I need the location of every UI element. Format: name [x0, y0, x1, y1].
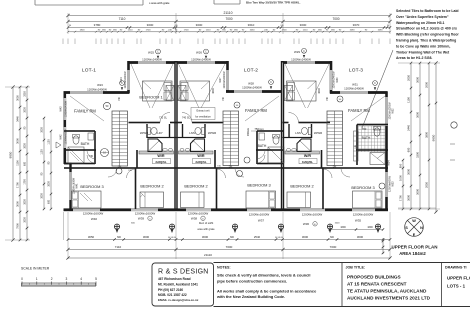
dimension row: overall 21110: [68, 15, 390, 17]
svg-text:W41: W41: [76, 183, 79, 189]
ref circle LOT-1 stair: [116, 168, 122, 174]
LOT-1 family diagonal: [70, 96, 104, 121]
LOT-2 wardrobe at party wall: [178, 85, 186, 100]
svg-text:C: C: [270, 81, 272, 84]
left outer wall upper: [64, 92, 67, 164]
svg-text:1200Wx1600W: 1200Wx1600W: [302, 213, 323, 217]
top wall bedrooms LOT-1/LOT-2: [128, 61, 229, 64]
window W24: [127, 70, 131, 90]
svg-text:2050: 2050: [425, 182, 429, 188]
small balloon left wall: [56, 142, 61, 148]
svg-text:DRAWING TI: DRAWING TI: [445, 266, 467, 270]
window W33: [385, 172, 389, 197]
ref circle LOT-2 family: [244, 157, 250, 163]
svg-text:3000: 3000: [24, 107, 27, 113]
svg-text:NOTES:: NOTES:: [217, 266, 231, 270]
svg-text:710 SL: 710 SL: [159, 117, 168, 120]
svg-text:7110: 7110: [119, 17, 126, 21]
LOT-1 W/R sliding front (gray band): [139, 151, 174, 154]
svg-text:framing plan). Tiles & Waterpr: framing plan). Tiles & Waterproofing: [396, 39, 456, 43]
svg-text:BEDROOM 3: BEDROOM 3: [351, 185, 374, 190]
svg-text:PH (09) 627 2160: PH (09) 627 2160: [158, 288, 183, 292]
svg-text:area with grate: area with grate: [197, 227, 215, 231]
svg-text:MOB. 021 1587 422: MOB. 021 1587 422: [158, 293, 187, 297]
window W32: [385, 97, 389, 126]
LOT-1 bath vanity: [88, 133, 94, 140]
svg-text:7000: 7000: [330, 245, 337, 249]
svg-text:W42: W42: [60, 134, 63, 140]
svg-text:1630: 1630: [250, 30, 256, 32]
svg-text:1200Wx1600W: 1200Wx1600W: [249, 213, 270, 217]
svg-text:Bbo Two Way 30/30/30 TRK TPR H: Bbo Two Way 30/30/30 TRK TPR HOWL.: [246, 1, 301, 5]
bottom dimension row B: 7110/7000/7000: [68, 249, 390, 251]
top wall bedroom LOT-3: [282, 61, 332, 64]
svg-text:1200Wx2400W: 1200Wx2400W: [242, 86, 262, 90]
svg-text:C: C: [205, 51, 207, 54]
svg-text:600: 600: [48, 199, 51, 204]
svg-text:W43: W43: [60, 106, 63, 112]
svg-text:1100: 1100: [16, 160, 20, 166]
svg-text:1100: 1100: [48, 139, 51, 145]
LOT-3 bath walls (tiled): [357, 124, 388, 126]
svg-text:2050: 2050: [24, 91, 27, 97]
title block frame: [152, 263, 214, 306]
svg-text:3800: 3800: [318, 88, 321, 94]
svg-text:R & S DESIGN: R & S DESIGN: [158, 269, 209, 276]
svg-text:C: C: [374, 82, 376, 85]
window W36: [300, 208, 325, 212]
svg-text:W/R: W/R: [157, 154, 165, 158]
svg-text:3: 3: [66, 277, 68, 281]
LOT-3 stair: [327, 111, 343, 166]
svg-text:1200Wx2400W: 1200Wx2400W: [87, 87, 107, 91]
ref circle LOT-1 hall: [101, 149, 109, 157]
bottom extension lines: [67, 212, 69, 259]
svg-text:N: N: [420, 226, 423, 230]
svg-text:3000: 3000: [41, 193, 44, 199]
svg-text:3670: 3670: [353, 23, 360, 27]
svg-text:AT 15 RENATA CRESCENT: AT 15 RENATA CRESCENT: [347, 281, 407, 286]
svg-text:1100: 1100: [407, 97, 411, 103]
svg-text:1790: 1790: [399, 195, 403, 201]
svg-text:7900: 7900: [16, 223, 20, 229]
svg-text:Site check & verify all diment: Site check & verify all dimentions, leve…: [217, 273, 310, 278]
bottom dimension row A: [68, 239, 390, 241]
svg-text:21110: 21110: [204, 253, 212, 257]
svg-text:C: C: [303, 50, 305, 53]
svg-text:3000: 3000: [407, 169, 411, 175]
svg-text:Waterproofing on 20mm H3.1: Waterproofing on 20mm H3.1: [396, 21, 445, 25]
LOT-2 stair: [223, 111, 239, 166]
svg-text:3x6Q/SL: 3x6Q/SL: [155, 160, 166, 164]
svg-text:W29: W29: [294, 50, 300, 54]
LOT-3 bedroom1 bed: [287, 81, 317, 101]
left outer wall lower: [69, 164, 71, 211]
ref circle LOT-3: [379, 183, 385, 189]
svg-text:LNS: LNS: [295, 131, 301, 135]
window W28: [234, 90, 262, 94]
LOT-1 laundry fixtures: [147, 127, 150, 134]
LOT-2 shower: [191, 139, 205, 152]
svg-text:1: 1: [36, 277, 38, 281]
svg-text:3000: 3000: [147, 23, 154, 27]
window W30: [329, 70, 333, 90]
svg-text:2440: 2440: [407, 125, 411, 131]
svg-text:W30: W30: [336, 77, 339, 83]
svg-text:90 240 90: 90 240 90: [275, 237, 283, 239]
LOT-2 bedroom east wall: [226, 61, 229, 93]
svg-text:Areas to be H1.2 SG8.: Areas to be H1.2 SG8.: [396, 56, 432, 60]
svg-text:TE ATATU PENINSULA, AUCKLAND: TE ATATU PENINSULA, AUCKLAND: [347, 288, 427, 293]
svg-text:Selected Tiles to Bathroom to: Selected Tiles to Bathroom to be Laid: [396, 9, 459, 13]
LOT-1 bedroom2 bed: [140, 192, 164, 208]
svg-text:90 240 90: 90 240 90: [168, 237, 176, 239]
LOT-3 bath tile grid: [358, 126, 386, 152]
party wall LOT-2/LOT-3: [281, 61, 284, 211]
cut-off box bottom (sheet above): [35, 4, 143, 6]
svg-text:3000: 3000: [416, 189, 420, 195]
svg-text:3000: 3000: [24, 199, 27, 205]
svg-text:3000: 3000: [357, 235, 364, 239]
svg-text:3000: 3000: [143, 235, 150, 239]
svg-text:W/R: W/R: [197, 154, 205, 158]
svg-text:600: 600: [399, 163, 403, 168]
svg-text:W27: W27: [219, 77, 222, 83]
svg-text:W: W: [412, 219, 416, 223]
svg-text:W/WR: W/WR: [314, 131, 322, 135]
window tag W26: [204, 49, 209, 59]
LOT-2 bedroom3 bed: [246, 191, 276, 208]
svg-text:7000: 7000: [226, 245, 233, 249]
svg-text:BEDROOM 2: BEDROOM 2: [184, 184, 207, 189]
svg-text:1700: 1700: [282, 30, 288, 32]
svg-text:LDY: LDY: [157, 131, 163, 135]
svg-text:BEDROOM 3: BEDROOM 3: [247, 183, 270, 188]
window W25: [138, 61, 166, 65]
window W42: [63, 127, 67, 148]
cut-off box 2 bottom: [214, 3, 240, 5]
svg-text:1790: 1790: [16, 182, 20, 188]
svg-text:W24: W24: [120, 77, 123, 83]
left dimension chain 2: [19, 87, 21, 240]
LOT-1 bedroom2/3 divider: [135, 168, 137, 209]
svg-text:AUCKLAND INVESTMENTS 2021 LTD: AUCKLAND INVESTMENTS 2021 LTD: [347, 295, 431, 300]
LOT-3 bedroom2 bed: [287, 192, 311, 208]
window tag W31: [373, 81, 378, 91]
svg-text:2050: 2050: [407, 75, 411, 81]
svg-text:3800: 3800: [425, 132, 429, 138]
svg-text:W33: W33: [392, 181, 395, 187]
svg-text:BEDROOM 2: BEDROOM 2: [140, 184, 163, 189]
svg-text:21110: 21110: [224, 11, 233, 15]
window W26: [187, 61, 215, 65]
LOT-3 W/R sliding front (gray band): [285, 151, 320, 154]
svg-text:0: 0: [21, 277, 23, 281]
svg-text:1200Wx2400W: 1200Wx2400W: [223, 71, 226, 89]
svg-text:BEDROOM 3: BEDROOM 3: [80, 184, 103, 189]
LOT-2 roof V lines: [179, 64, 200, 108]
svg-text:2000: 2000: [425, 82, 429, 88]
svg-text:S: S: [405, 226, 408, 230]
svg-text:3000: 3000: [300, 23, 307, 27]
LOT-3 shower 2: [297, 139, 311, 152]
extension stubs below top dim row 4: [62, 39, 64, 45]
svg-text:1200Wx1600W: 1200Wx1600W: [135, 211, 156, 215]
svg-text:BATH: BATH: [81, 142, 90, 146]
LOT-2 bath vanity: [259, 133, 265, 140]
window W37: [247, 208, 271, 212]
LOT-2 bedroom2 bed: [181, 192, 205, 208]
extension lines top: [67, 13, 69, 34]
dimension row: small top dims: [68, 31, 390, 33]
svg-text:467 Richardson Road: 467 Richardson Road: [158, 277, 191, 281]
window W38: [186, 208, 211, 212]
svg-text:5: 5: [95, 277, 97, 281]
svg-text:3300: 3300: [416, 152, 420, 158]
svg-text:FAMILY RM: FAMILY RM: [348, 108, 370, 113]
LOT-2 door arcs: [217, 169, 226, 178]
LOT-1 bath fixtures: toilet, basin, shower: [73, 136, 79, 144]
right dimension chains: [402, 160, 404, 209]
LOT-3 bedroom east wall: [330, 61, 333, 94]
svg-text:W/WR: W/WR: [208, 131, 216, 135]
bottom outer wall: [64, 208, 389, 211]
window W43: [63, 98, 67, 120]
LOT-2 W/R sliding front (gray band): [179, 151, 214, 154]
svg-text:for ventilation: for ventilation: [195, 115, 211, 119]
leader line from note to LOT-3 bath: [362, 50, 393, 128]
svg-text:W40: W40: [91, 217, 98, 221]
svg-text:W38: W38: [191, 217, 198, 221]
svg-text:DN: DN: [333, 166, 337, 169]
LOT-3 family diagonal: [351, 96, 385, 121]
svg-text:LOTS - 1: LOTS - 1: [447, 283, 466, 288]
svg-text:BEDROOM 1: BEDROOM 1: [139, 94, 162, 99]
ref circle LOT-2: [234, 102, 240, 108]
LOT-2 bath walls: [257, 130, 283, 132]
svg-text:3050: 3050: [88, 235, 95, 239]
svg-text:1690: 1690: [340, 226, 346, 229]
LOT-3 bedroom3 bed: [353, 191, 383, 208]
svg-text:with the New Zealand Building: with the New Zealand Building Code.: [216, 294, 285, 299]
svg-text:W34: W34: [387, 160, 390, 166]
right extension line to title area: [382, 238, 384, 254]
svg-text:1700: 1700: [146, 30, 152, 32]
svg-text:1200Wx2400W: 1200Wx2400W: [142, 58, 162, 62]
dimension row: 7110 / 7000 / 7000: [68, 21, 390, 23]
svg-text:1000: 1000: [399, 175, 403, 181]
LOT-1 wardrobes at party wall: [166, 85, 174, 100]
svg-text:LOT-1: LOT-1: [82, 68, 96, 74]
ref circle below LOT-2 stair: [237, 171, 243, 177]
dimension row: 3780/3000/3000/3610/3000/3670: [68, 27, 390, 29]
svg-text:1200Wx1600W: 1200Wx1600W: [188, 211, 209, 215]
LOT-1 roof V lines: [131, 64, 150, 108]
svg-text:SCALE IN METER: SCALE IN METER: [21, 267, 50, 271]
window W39: [131, 208, 158, 212]
svg-text:W36: W36: [303, 222, 310, 226]
svg-text:3050: 3050: [16, 95, 20, 101]
svg-text:BEDROOM 2: BEDROOM 2: [290, 184, 313, 189]
LOT-2 bath fixtures: [273, 136, 279, 144]
svg-text:PROPOSED BUILDINGS: PROPOSED BUILDINGS: [347, 274, 401, 279]
LOT-1 door arcs: [127, 169, 136, 178]
svg-text:LOT-2: LOT-2: [244, 68, 258, 74]
svg-text:1200Wx1600W: 1200Wx1600W: [353, 213, 374, 217]
svg-text:1790: 1790: [24, 179, 27, 185]
svg-text:All works shall comply & be co: All works shall comply & be completed in…: [217, 288, 317, 293]
svg-text:3x6Q/SL: 3x6Q/SL: [302, 160, 313, 164]
svg-text:1200Wx2400W: 1200Wx2400W: [124, 71, 127, 89]
window W23: [70, 91, 103, 95]
svg-text:3000: 3000: [302, 235, 309, 239]
ref circle LOT-1 family: [103, 102, 110, 109]
svg-text:740 SL: 740 SL: [182, 117, 191, 120]
svg-text:600: 600: [407, 147, 411, 152]
svg-text:2540: 2540: [254, 235, 261, 239]
LOT-3 mid walls: [283, 122, 331, 124]
LOT-2 bedroom2/3 divider: [216, 168, 218, 209]
LOT-2 family diagonal: [245, 96, 279, 121]
svg-text:DN: DN: [229, 165, 233, 168]
svg-text:1210: 1210: [128, 30, 134, 32]
svg-text:1690: 1690: [378, 30, 384, 32]
svg-text:750: 750: [362, 127, 367, 131]
compass symbol: [405, 218, 424, 237]
svg-text:3000: 3000: [24, 143, 27, 149]
family top wall LOT-3: [330, 91, 388, 94]
LOT-3 shelves near bath: [354, 131, 359, 161]
svg-text:LOT-3: LOT-3: [349, 68, 363, 74]
window W41: [69, 172, 73, 200]
left inner chains: [43, 118, 45, 209]
svg-text:1100: 1100: [41, 149, 44, 155]
window tag W28: [269, 80, 274, 90]
svg-text:1200Wx1600W: 1200Wx1600W: [83, 211, 104, 215]
LOT-1 bath walls: [64, 130, 95, 132]
LOT-1 mid walls: [129, 122, 177, 124]
svg-text:3000: 3000: [407, 195, 411, 201]
LOT-1 bedroom3 bed: [72, 191, 102, 208]
svg-text:1800: 1800: [80, 30, 86, 32]
svg-text:7110: 7110: [115, 245, 122, 249]
svg-text:Extract unit: Extract unit: [197, 109, 210, 113]
LOT-3 bedroom2/3 divider: [322, 168, 324, 209]
svg-text:W37: W37: [258, 219, 265, 223]
window W27: [226, 70, 230, 90]
family top wall LOT-1: [64, 91, 130, 94]
svg-text:1690: 1690: [367, 226, 373, 229]
svg-text:FAMILY RM: FAMILY RM: [245, 108, 267, 113]
svg-text:3000: 3000: [41, 127, 44, 133]
svg-text:1690: 1690: [350, 30, 356, 32]
svg-text:UPPER FLO: UPPER FLO: [447, 275, 470, 280]
bottom sub-chain 1690/90/1690: [330, 229, 383, 231]
svg-text:3000: 3000: [416, 112, 420, 118]
svg-text:Strandfloor on H1.2 Joists @ 4: Strandfloor on H1.2 Joists @ 400 crs: [396, 27, 457, 31]
svg-text:W39: W39: [138, 217, 145, 221]
svg-text:7000: 7000: [332, 17, 339, 21]
svg-text:600: 600: [24, 161, 27, 166]
right bottom tick row: [398, 207, 436, 209]
svg-text:3000: 3000: [202, 235, 209, 239]
svg-text:EMAIL rs.design@xtra.co.nz: EMAIL rs.design@xtra.co.nz: [158, 298, 199, 302]
LOT-3 wardrobe at party wall: [285, 85, 293, 100]
svg-text:1200Wx2400W: 1200Wx2400W: [291, 58, 311, 62]
LOT-3 shower: [370, 153, 385, 165]
svg-text:to be Cove up Walls min 100mm,: to be Cove up Walls min 100mm,: [396, 44, 450, 48]
bottom balloon pins (duct markers): [114, 224, 119, 233]
window W35: [352, 208, 375, 212]
left dimension chain 8850: [12, 87, 14, 240]
svg-text:W35: W35: [355, 219, 362, 223]
left dimension chain 3: [26, 87, 28, 240]
svg-text:pipe before construction comme: pipe before construction commences.: [217, 278, 287, 283]
svg-text:3x6Q/SL: 3x6Q/SL: [195, 160, 206, 164]
svg-text:BATH: BATH: [362, 136, 371, 140]
svg-text:W26: W26: [196, 51, 202, 55]
window W31: [340, 91, 368, 95]
svg-text:3000: 3000: [48, 181, 51, 187]
svg-text:3000: 3000: [24, 217, 27, 223]
svg-text:3800: 3800: [212, 88, 215, 94]
svg-text:C: C: [157, 51, 159, 54]
family top wall LOT-2: [226, 90, 283, 93]
svg-text:3780: 3780: [94, 23, 101, 27]
bottom dimension row C: overall 21110: [68, 257, 390, 259]
svg-text:JOB TITLE:: JOB TITLE:: [346, 266, 366, 270]
svg-text:W/R: W/R: [304, 154, 312, 158]
LOT-2 laundry fixtures: [202, 127, 205, 134]
svg-text:Mt. Roskill, Auckland 1041: Mt. Roskill, Auckland 1041: [158, 282, 198, 286]
window tag W29: [302, 48, 307, 58]
LOT-2 mid walls: [176, 122, 224, 124]
svg-text:With Blocking (refer engineeri: With Blocking (refer engineering floor: [396, 33, 459, 37]
svg-text:2: 2: [51, 277, 53, 281]
svg-text:Timber Framing Wall of The Wet: Timber Framing Wall of The Wet: [396, 50, 450, 54]
LOT-3 laundry fixtures: [308, 127, 311, 134]
window tag W23: [120, 81, 125, 91]
right outer wall: [385, 92, 388, 212]
svg-text:BATH: BATH: [258, 144, 267, 148]
svg-text:1210: 1210: [206, 30, 212, 32]
LOT-3 door arcs: [323, 169, 332, 178]
window W40: [73, 208, 100, 212]
ref circle LOT-3: [337, 96, 343, 102]
LOT-1 stair: [112, 111, 128, 166]
window W29: [287, 61, 315, 65]
svg-text:4: 4: [80, 277, 82, 281]
svg-text:900mm: 900mm: [247, 128, 250, 136]
svg-text:7000: 7000: [225, 17, 232, 21]
svg-text:1210: 1210: [303, 30, 309, 32]
svg-text:3000: 3000: [16, 201, 20, 207]
svg-text:Duct of soffit: Duct of soffit: [199, 221, 214, 225]
right small circle symbol: [451, 122, 457, 128]
svg-text:3000: 3000: [416, 77, 420, 83]
LOT-1 shower: [148, 139, 162, 152]
svg-text:LNS: LNS: [189, 131, 195, 135]
svg-text:3000: 3000: [16, 138, 20, 144]
svg-text:Over "Ardex Superflex System": Over "Ardex Superflex System": [396, 15, 449, 19]
svg-text:8850: 8850: [9, 151, 13, 158]
svg-text:3000: 3000: [196, 23, 203, 27]
left wall jog: [64, 163, 72, 165]
svg-text:s area with grate: s area with grate: [149, 1, 170, 5]
window tag W25: [156, 49, 161, 59]
LOT-3 roof V lines: [285, 64, 306, 108]
svg-text:AREA 184m2: AREA 184m2: [399, 251, 426, 256]
